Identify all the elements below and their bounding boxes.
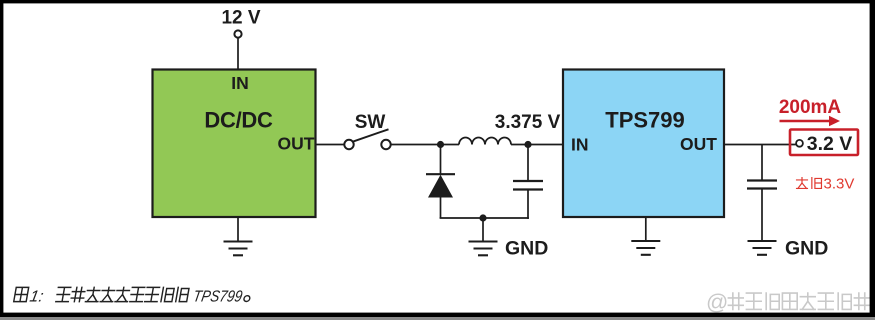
svg-text:12 V: 12 V (221, 8, 260, 29)
svg-text:@: @ (706, 290, 728, 315)
svg-text:OUT: OUT (278, 134, 315, 154)
svg-text:TPS799: TPS799 (605, 108, 685, 133)
svg-text:GND: GND (785, 238, 828, 260)
svg-text:GND: GND (505, 238, 548, 260)
svg-text:3.2 V: 3.2 V (807, 133, 853, 155)
svg-text:TPS799: TPS799 (192, 288, 244, 306)
svg-text:SW: SW (355, 112, 386, 133)
svg-text:3.375 V: 3.375 V (495, 112, 561, 133)
svg-text:IN: IN (571, 135, 589, 155)
svg-text:DC/DC: DC/DC (204, 108, 273, 133)
svg-text:3.3V: 3.3V (824, 176, 855, 193)
svg-text:200mA: 200mA (779, 97, 842, 118)
svg-text:IN: IN (231, 73, 249, 93)
svg-text:OUT: OUT (680, 134, 717, 154)
